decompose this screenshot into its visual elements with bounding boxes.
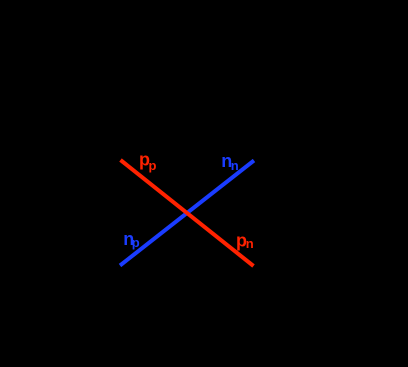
svg-text:n: n — [231, 158, 239, 173]
node p_n label — [236, 230, 254, 251]
svg-text:p: p — [149, 158, 157, 173]
svg-text:p: p — [132, 235, 140, 250]
node n_n label — [221, 151, 239, 173]
svg-text:n: n — [246, 236, 254, 251]
node n_p label — [123, 229, 140, 250]
node p_p label — [139, 150, 157, 174]
wire hole density line p (red, falling left to right) — [121, 160, 254, 266]
wire electron density line n (blue, rising left to right) — [120, 161, 254, 266]
